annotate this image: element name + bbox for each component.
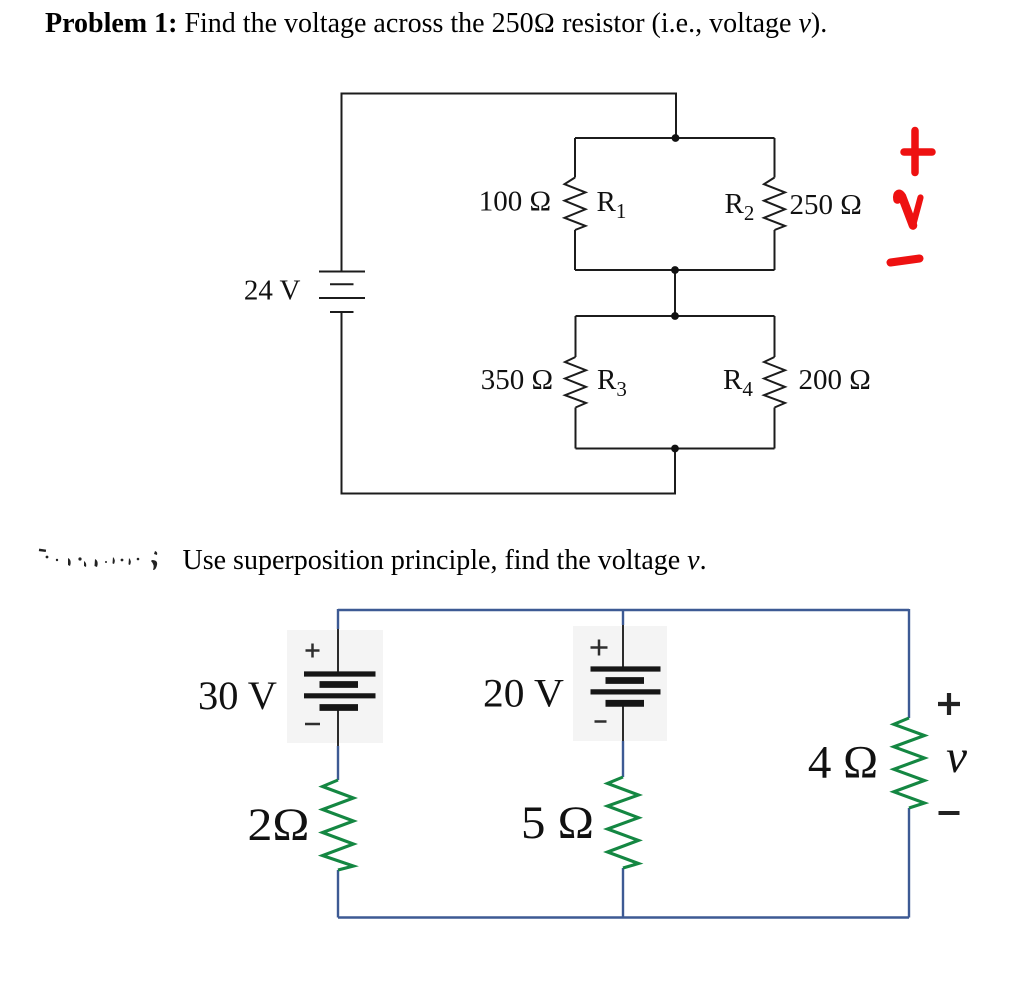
wire: right edge lower (908, 808, 910, 918)
svg-text:2Ω: 2Ω (248, 799, 310, 851)
battery 20V minus sign (595, 720, 607, 723)
wire: battery top to circuit1 top rail (342, 94, 677, 272)
battery 20V lead bottom (622, 706, 624, 741)
wire: box1 right edge lower (774, 230, 776, 270)
wire: box1 left edge upper (574, 138, 576, 178)
red plus annotation (911, 131, 919, 173)
battery 20V lead top (622, 625, 624, 669)
svg-text:200 Ω: 200 Ω (799, 364, 871, 396)
svg-text:4 Ω: 4 Ω (808, 737, 878, 789)
svg-text:R3: R3 (597, 364, 627, 401)
wire: bottom return to battery (342, 312, 676, 494)
wire: left branch mid (337, 746, 339, 780)
svg-text:24 V: 24 V (244, 275, 301, 307)
wire: middle branch mid (622, 741, 624, 777)
node dot top of box2 (671, 312, 679, 320)
node dot bottom of box1 (671, 266, 679, 274)
resistor 2 ohm zigzag (323, 780, 354, 870)
problem 2 prompt text (183, 547, 707, 575)
wire: middle branch top stub (622, 609, 624, 625)
problem 1 title text (45, 10, 827, 38)
resistor 5 ohm zigzag (608, 777, 639, 868)
svg-text:20 V: 20 V (483, 671, 564, 716)
resistor R2 zigzag (764, 178, 785, 231)
resistor R3 zigzag (565, 357, 586, 408)
wire: box2 left edge lower (575, 408, 577, 449)
resistor R1 zigzag (565, 178, 586, 231)
wire: circuit2 bottom rail (338, 916, 909, 918)
wire: box1 right edge upper (774, 138, 776, 178)
wire: box2 bottom edge (576, 448, 775, 450)
wire: left branch bottom (337, 870, 339, 918)
red v annotation (897, 194, 913, 226)
wire: middle branch bottom (622, 868, 624, 918)
battery 20V plates (591, 666, 661, 671)
battery V1 24V plates (319, 271, 365, 273)
wire: box1 bottom edge (575, 269, 775, 271)
svg-text:R4: R4 (723, 364, 753, 401)
svg-text:30 V: 30 V (198, 673, 277, 718)
label plus for v (938, 693, 960, 715)
svg-text:R2: R2 (725, 188, 755, 225)
wire: box2 left edge upper (575, 316, 577, 357)
wire: box2 right edge upper (774, 316, 776, 357)
red minus annotation (891, 259, 920, 263)
wire: right edge upper (908, 609, 910, 718)
svg-text:v: v (946, 731, 967, 783)
wire: box2 right edge lower (774, 408, 776, 449)
wire: box1 top edge (575, 137, 775, 139)
wire: box1 left edge lower (574, 230, 576, 270)
battery 30V plates (304, 671, 376, 676)
resistor R4 zigzag (764, 357, 785, 408)
node dot bottom of box2 (671, 445, 679, 453)
wire: middle link between boxes (674, 270, 676, 316)
battery image background patch 2 (573, 626, 667, 741)
svg-text:5 Ω: 5 Ω (521, 797, 594, 849)
svg-text:350 Ω: 350 Ω (481, 364, 553, 396)
battery 20V plus sign (591, 640, 608, 656)
svg-text:100 Ω: 100 Ω (479, 186, 551, 218)
wire: circuit2 top rail (338, 609, 909, 611)
wire: box2 top edge (576, 315, 775, 317)
svg-text:R1: R1 (597, 186, 627, 223)
battery image background patch 1 (287, 630, 383, 743)
label minus for v (939, 811, 960, 815)
battery 30V lead bottom (337, 709, 339, 746)
battery 30V plus sign (306, 644, 320, 658)
node dot top of box1 (672, 134, 680, 142)
battery 30V minus sign (305, 723, 320, 726)
wire: left branch top stub (337, 609, 339, 629)
battery 30V lead top (337, 629, 339, 674)
smudge remnants of erased text (39, 549, 157, 570)
resistor 4 ohm zigzag (894, 718, 925, 808)
svg-text:250 Ω: 250 Ω (790, 189, 862, 221)
